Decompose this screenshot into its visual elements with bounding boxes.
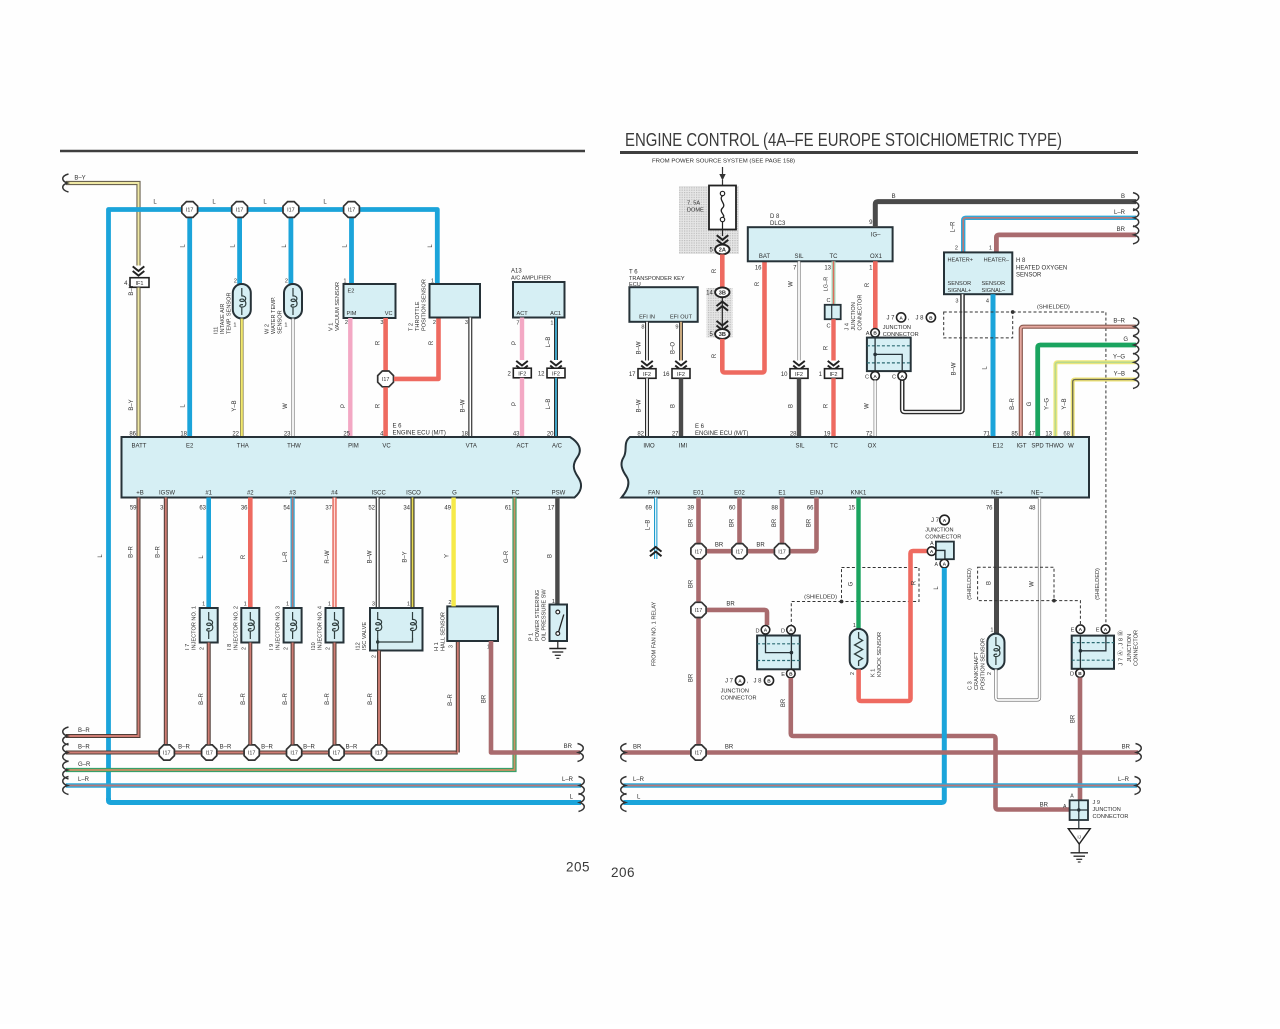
svg-text:2: 2 xyxy=(987,672,993,675)
svg-text:HEATED OXYGEN: HEATED OXYGEN xyxy=(1016,266,1067,272)
svg-text:(SHIELDED): (SHIELDED) xyxy=(967,568,973,600)
svg-text:FC: FC xyxy=(512,491,521,497)
arrows up on FAN wire xyxy=(650,547,662,552)
svg-text:ENGINE ECU (M/T): ENGINE ECU (M/T) xyxy=(393,431,446,437)
svg-text:B: B xyxy=(671,404,677,408)
svg-text:D: D xyxy=(781,628,785,634)
svg-text:INTAKE AIR: INTAKE AIR xyxy=(220,304,226,334)
svg-text:J 8: J 8 xyxy=(754,679,763,685)
svg-text:PIM: PIM xyxy=(347,311,357,317)
svg-text:BR: BR xyxy=(807,518,813,527)
svg-text:+B: +B xyxy=(136,491,144,497)
wire R link I17 to throttle sensor xyxy=(394,318,439,379)
ground symbol below J9 xyxy=(1078,844,1080,853)
svg-text:IF2: IF2 xyxy=(795,372,803,378)
wire L-B FAN from fan relay xyxy=(654,498,657,560)
svg-text:A: A xyxy=(930,541,934,547)
svg-text:E: E xyxy=(1096,628,1100,634)
svg-text:Y: Y xyxy=(445,554,451,558)
svg-text:BR: BR xyxy=(1040,803,1049,809)
svg-text:88: 88 xyxy=(771,506,778,512)
svg-text:BR: BR xyxy=(633,745,642,751)
svg-text:TC: TC xyxy=(830,444,839,450)
svg-text:R: R xyxy=(824,403,830,408)
wire P ACT upper xyxy=(520,318,524,361)
wire R from 2A to 3B xyxy=(720,254,725,287)
svg-text:1: 1 xyxy=(284,323,287,329)
svg-text:A: A xyxy=(1063,804,1067,810)
wire BR E01 long xyxy=(696,498,701,745)
svg-text:J 9: J 9 xyxy=(1093,800,1100,806)
injector I8 INJECTOR NO. 2 xyxy=(248,498,253,609)
svg-text:IJ: IJ xyxy=(1077,835,1081,840)
svg-text:I10: I10 xyxy=(311,642,317,650)
svg-text:2: 2 xyxy=(955,246,958,252)
svg-text:B–W: B–W xyxy=(637,341,643,354)
svg-text:R: R xyxy=(865,282,871,287)
svg-text:2A: 2A xyxy=(719,248,726,254)
wire BR right junction to J9 xyxy=(1078,678,1083,801)
svg-text:1: 1 xyxy=(550,321,553,327)
svg-text:IF2: IF2 xyxy=(518,371,526,377)
wire B-W VTA xyxy=(468,318,472,438)
wire L-R bus (page 206) xyxy=(624,783,1138,788)
wire G KNK1 to knock sensor xyxy=(856,498,860,630)
wire B-R ISC valve to bus xyxy=(377,651,381,745)
svg-text:60: 60 xyxy=(729,506,736,512)
sensor C3 crankshaft position sensor capsule xyxy=(987,634,1004,670)
ECU block E6 (left page) xyxy=(122,437,582,498)
svg-text:BR: BR xyxy=(689,518,695,527)
svg-text:THA: THA xyxy=(237,444,249,450)
svg-text:NE–: NE– xyxy=(1031,491,1043,497)
svg-text:B–R: B–R xyxy=(1113,319,1125,325)
svg-text:1: 1 xyxy=(989,246,992,252)
svg-text:R: R xyxy=(912,580,918,585)
junction I17 row (E01 E02 E1) xyxy=(691,544,706,559)
wire R to ECU TC xyxy=(831,378,835,437)
svg-text:CONNECTOR: CONNECTOR xyxy=(721,695,757,701)
svg-text:3: 3 xyxy=(449,645,455,648)
svg-text:I17: I17 xyxy=(695,751,703,757)
shield dashes knock sensor xyxy=(842,568,920,602)
ISC valve box xyxy=(370,608,423,651)
svg-text:7: 7 xyxy=(516,321,519,327)
svg-text:2: 2 xyxy=(285,279,288,285)
svg-text:2: 2 xyxy=(200,647,206,650)
wire B-O EFI OUT xyxy=(679,322,683,361)
svg-text:BR: BR xyxy=(726,601,735,607)
svg-text:D: D xyxy=(755,628,759,634)
svg-text:B–R: B–R xyxy=(199,692,205,704)
svg-text:L–B: L–B xyxy=(546,399,552,410)
hook Y-G xyxy=(1133,353,1139,371)
svg-text:R: R xyxy=(241,554,247,559)
wire L drop to THW sensor xyxy=(288,210,293,285)
svg-text:I17: I17 xyxy=(186,208,194,214)
wire R DLC3 OX1 to junction connector xyxy=(873,261,878,328)
svg-text:IG–: IG– xyxy=(871,233,881,239)
svg-text:3B: 3B xyxy=(719,332,726,338)
svg-text:10: 10 xyxy=(781,372,788,378)
svg-text:B–Y: B–Y xyxy=(403,551,409,562)
wire L-R to H8 heater+ xyxy=(963,218,1136,253)
wire W DLC3 SIL xyxy=(797,261,800,360)
svg-text:R: R xyxy=(429,340,435,345)
wire BR EINJ xyxy=(790,498,817,552)
ground below P1 xyxy=(557,641,559,649)
svg-text:(SHIELDED): (SHIELDED) xyxy=(1095,568,1101,600)
svg-text:A/C: A/C xyxy=(552,444,563,450)
wire B-Y ISCO xyxy=(411,498,415,609)
svg-text:BR: BR xyxy=(689,673,695,682)
svg-text:BR: BR xyxy=(730,518,736,527)
pin D-B below junction right xyxy=(1076,669,1085,678)
svg-text:66: 66 xyxy=(807,506,814,512)
wire BR hall sensor to hook xyxy=(491,641,580,753)
svg-text:EFI OUT: EFI OUT xyxy=(670,315,693,321)
wire B-W to ECU IMO xyxy=(645,378,649,437)
svg-text:FAN: FAN xyxy=(648,491,660,497)
wire B-R to ECU IGT xyxy=(1021,327,1136,437)
wire L-B AC1 upper xyxy=(554,318,558,361)
link arrows between 3B xyxy=(721,297,723,330)
svg-text:3: 3 xyxy=(380,320,383,326)
svg-text:SIGNAL+: SIGNAL+ xyxy=(948,288,972,294)
wire LG-R DLC3 TC xyxy=(832,261,836,305)
svg-text:I17: I17 xyxy=(236,208,244,214)
svg-text:C: C xyxy=(892,374,896,380)
sensor H8 heated oxygen sensor box xyxy=(944,252,1012,294)
svg-text:E02: E02 xyxy=(734,491,745,497)
connector 3B upper xyxy=(715,287,729,297)
svg-text:J 7: J 7 xyxy=(931,518,940,524)
svg-text:B: B xyxy=(892,194,896,200)
svg-text:Y–G: Y–G xyxy=(1113,354,1125,360)
svg-text:A: A xyxy=(943,562,947,568)
hook L-R right xyxy=(579,777,585,795)
wire Y-B THA xyxy=(240,319,244,438)
svg-text:A: A xyxy=(873,374,877,380)
svg-text:D: D xyxy=(1070,672,1074,678)
arrow into IF2 #17 xyxy=(641,361,653,366)
svg-text:IF2: IF2 xyxy=(677,372,685,378)
svg-text:CRANKSHAFT: CRANKSHAFT xyxy=(974,652,980,690)
hook L-R right 206 xyxy=(1135,777,1141,795)
svg-text:JUNCTION: JUNCTION xyxy=(925,528,953,534)
svg-text:82: 82 xyxy=(637,432,644,438)
wire G to ECU SPD xyxy=(1038,345,1136,437)
svg-text:B–R: B–R xyxy=(448,693,454,705)
svg-text:G: G xyxy=(1123,337,1128,343)
svg-text:2: 2 xyxy=(326,647,332,650)
svg-text:47: 47 xyxy=(1028,432,1035,438)
svg-text:2: 2 xyxy=(448,600,451,606)
svg-text:A: A xyxy=(789,628,793,634)
connector IF2 #16 xyxy=(672,369,690,379)
svg-text:BAT: BAT xyxy=(759,254,771,260)
svg-text:1: 1 xyxy=(853,623,856,629)
svg-text:L–R: L–R xyxy=(562,777,574,783)
svg-text:B–R: B–R xyxy=(261,745,273,751)
transponder T6 key ECU box xyxy=(629,287,697,322)
svg-text:I17: I17 xyxy=(205,751,213,757)
svg-text:E2: E2 xyxy=(348,289,355,295)
svg-text:B–R: B–R xyxy=(346,745,358,751)
svg-text:A: A xyxy=(1104,627,1108,633)
svg-text:A: A xyxy=(930,549,934,555)
svg-text:3B: 3B xyxy=(719,291,726,297)
pin A circle on blue wire xyxy=(940,559,949,568)
svg-text:H 1: H 1 xyxy=(434,642,440,651)
svg-text:IF2: IF2 xyxy=(829,372,837,378)
wire B PSW xyxy=(555,498,559,605)
svg-text:CONNECTOR: CONNECTOR xyxy=(1134,630,1140,666)
svg-text:I 8: I 8 xyxy=(227,644,233,650)
wire L drop to V1 vacuum sensor xyxy=(349,210,354,285)
wire W NE- loop to crankshaft pin 2 xyxy=(996,498,1040,701)
hook B-R +B xyxy=(63,727,69,745)
svg-text:IMI: IMI xyxy=(679,444,688,450)
svg-text:L–R: L–R xyxy=(633,777,645,783)
shield dashes crankshaft xyxy=(978,567,1054,600)
svg-text:B: B xyxy=(873,331,877,337)
svg-text:BR: BR xyxy=(564,744,573,750)
svg-text:INJECTOR NO. 4: INJECTOR NO. 4 xyxy=(318,606,324,650)
svg-text:A: A xyxy=(738,678,742,684)
svg-text:G–R: G–R xyxy=(78,762,91,768)
svg-text:W: W xyxy=(789,281,795,287)
injector I7 INJECTOR NO. 1 xyxy=(206,498,211,609)
svg-text:86: 86 xyxy=(129,432,136,438)
svg-text:R: R xyxy=(824,345,830,350)
svg-text:B–Y: B–Y xyxy=(129,399,135,410)
svg-text:B–R: B–R xyxy=(368,692,374,704)
hook L-R left xyxy=(63,777,69,795)
svg-text:EINJ: EINJ xyxy=(810,491,823,497)
svg-text:J 7 Ⓐ , J 8 Ⓑ: J 7 Ⓐ , J 8 Ⓑ xyxy=(1117,630,1125,665)
svg-text:I17: I17 xyxy=(248,751,256,757)
svg-text:I 7: I 7 xyxy=(185,644,191,650)
svg-text:3: 3 xyxy=(465,320,468,326)
svg-text:Y–B: Y–B xyxy=(1062,398,1068,409)
hook G xyxy=(1133,336,1139,354)
svg-text:W: W xyxy=(1068,444,1074,450)
svg-text:H 8: H 8 xyxy=(1016,258,1026,264)
wire B-R ground bus (page 205) xyxy=(66,751,458,755)
svg-text:23: 23 xyxy=(284,432,291,438)
svg-text:E: E xyxy=(781,672,785,678)
svg-text:E: E xyxy=(1071,628,1075,634)
wire P PIM xyxy=(348,318,352,437)
svg-text:14: 14 xyxy=(706,291,713,297)
sensor I11 intake air temp capsule xyxy=(233,284,251,319)
feed arrow into fuse xyxy=(722,167,724,179)
pin E-B below junction xyxy=(787,669,796,678)
svg-text:ENGINE ECU (M/T): ENGINE ECU (M/T) xyxy=(695,431,748,437)
pin A circle on red wire xyxy=(927,547,936,556)
injector I9 INJECTOR NO. 3 xyxy=(291,498,295,609)
sensor K1 knock sensor capsule xyxy=(850,629,868,670)
svg-text:IF2: IF2 xyxy=(552,371,560,377)
svg-text:C: C xyxy=(826,298,830,304)
svg-text:E1: E1 xyxy=(778,491,786,497)
hook L-R left 206 xyxy=(621,777,627,795)
svg-text:R: R xyxy=(712,353,718,358)
wire Y-G to ECU THWO xyxy=(1055,362,1136,437)
svg-text:Y–G: Y–G xyxy=(1045,398,1051,410)
wire B-Y to ECU BATT xyxy=(136,288,140,438)
junction I17 on E01 lower xyxy=(691,602,706,617)
svg-text:CONNECTOR: CONNECTOR xyxy=(883,332,919,338)
sensor V1 vacuum sensor box xyxy=(344,284,396,318)
svg-text:B–R: B–R xyxy=(241,692,247,704)
svg-text:54: 54 xyxy=(283,506,290,512)
connector IF2 #17 xyxy=(638,369,656,379)
svg-text:2: 2 xyxy=(345,320,348,326)
fuse 7.5A DOME xyxy=(679,186,739,254)
svg-text:E 6: E 6 xyxy=(695,424,705,430)
wire L main bus (page 205) xyxy=(109,210,438,801)
connector IF2 #2 xyxy=(513,368,531,378)
svg-text:34: 34 xyxy=(403,506,410,512)
svg-text:VACUUM SENSOR: VACUUM SENSOR xyxy=(335,282,341,331)
hook L-R xyxy=(1133,209,1139,227)
svg-text:63: 63 xyxy=(199,506,206,512)
svg-text:KNOCK SENSOR: KNOCK SENSOR xyxy=(877,632,883,677)
sensor W2 water temp capsule xyxy=(284,284,302,319)
junction I17 on BR bus 206 xyxy=(691,745,706,760)
svg-text:P 1: P 1 xyxy=(529,633,535,641)
svg-text:K 1: K 1 xyxy=(871,669,877,677)
svg-text:(SHIELDED): (SHIELDED) xyxy=(1037,305,1070,311)
svg-text:E12: E12 xyxy=(993,444,1004,450)
hook B-R bus xyxy=(63,744,69,762)
svg-text:BR: BR xyxy=(772,518,778,527)
wire W THW xyxy=(291,319,294,438)
wire B NE+ to crankshaft sensor xyxy=(994,498,999,634)
wire G-R FC xyxy=(66,498,515,771)
svg-text:B–R: B–R xyxy=(303,745,315,751)
wire R knock sensor loop to J7 xyxy=(859,551,928,701)
svg-text:16: 16 xyxy=(755,266,762,272)
svg-text:C: C xyxy=(865,374,869,380)
svg-text:2: 2 xyxy=(284,647,290,650)
svg-text:52: 52 xyxy=(368,506,375,512)
wire B-R IGSW xyxy=(164,498,168,749)
svg-text:B: B xyxy=(789,672,793,678)
wire L knock junction to left page xyxy=(624,568,945,803)
pins E-A of junction connector (right) xyxy=(1076,625,1085,634)
shield dashes around H8 signal wire xyxy=(944,312,1013,338)
svg-text:B–W: B–W xyxy=(637,399,643,412)
svg-text:19: 19 xyxy=(824,432,831,438)
svg-text:IGT: IGT xyxy=(1017,444,1027,450)
svg-text:L–B: L–B xyxy=(546,337,552,348)
connector IF2 #10 xyxy=(790,369,808,379)
svg-text:L–R: L–R xyxy=(951,221,957,233)
svg-text:THROTTLE: THROTTLE xyxy=(415,301,421,331)
arrow into IF2 (ACT) xyxy=(516,361,528,366)
svg-text:ECU: ECU xyxy=(629,282,641,288)
svg-text:20: 20 xyxy=(547,432,554,438)
svg-text:IMO: IMO xyxy=(643,444,655,450)
svg-text:I12: I12 xyxy=(356,642,362,650)
connector 2A xyxy=(715,245,729,255)
svg-text:CONNECTOR: CONNECTOR xyxy=(925,534,961,540)
svg-text:JUNCTION: JUNCTION xyxy=(1127,634,1133,662)
svg-text:13: 13 xyxy=(1045,432,1052,438)
relay A13 A/C amplifier box xyxy=(513,282,565,318)
junction connector J7/J8 box (page 206 left) xyxy=(757,636,800,670)
svg-text:A: A xyxy=(1079,627,1083,633)
svg-text:68: 68 xyxy=(1063,432,1070,438)
svg-text:B: B xyxy=(767,678,771,684)
wire B-R below I9 xyxy=(291,643,295,745)
svg-text:I17: I17 xyxy=(287,208,295,214)
svg-text:1: 1 xyxy=(407,602,410,608)
svg-text:1: 1 xyxy=(990,628,993,634)
svg-text:E 6: E 6 xyxy=(393,424,403,430)
wire W junction to ECU OX xyxy=(874,380,877,437)
wire BR bus (page 206) xyxy=(624,750,1139,755)
svg-text:SIL: SIL xyxy=(794,254,804,260)
svg-text:B: B xyxy=(789,404,795,408)
svg-text:THWO: THWO xyxy=(1045,444,1064,450)
arrow into IF2 #16 xyxy=(675,361,687,366)
wire BR E02 xyxy=(737,498,742,545)
svg-text:I17: I17 xyxy=(163,751,171,757)
svg-text:8: 8 xyxy=(641,325,644,331)
svg-text:2: 2 xyxy=(850,672,856,675)
junction connector J7/J8 box (page 206 right) xyxy=(1072,636,1114,669)
sensor T2 throttle position sensor box xyxy=(430,284,481,318)
shield dash line to J7/J8 E pin xyxy=(1013,312,1106,625)
svg-text:VC: VC xyxy=(382,444,391,450)
svg-text:15: 15 xyxy=(848,506,855,512)
svg-text:A: A xyxy=(866,331,870,337)
svg-text:9: 9 xyxy=(675,325,678,331)
wire R TC to IF2 xyxy=(831,319,835,360)
wire B-W ISCC xyxy=(376,498,380,609)
sensor H1 hall sensor box xyxy=(447,606,498,641)
svg-text:A: A xyxy=(935,562,939,568)
wire R VC upper xyxy=(383,318,388,371)
hook BR xyxy=(1133,226,1139,244)
svg-text:ISCO: ISCO xyxy=(406,491,421,497)
svg-text:W: W xyxy=(865,403,871,409)
svg-text:E01: E01 xyxy=(693,491,704,497)
svg-text:ACT: ACT xyxy=(517,444,529,450)
wire B-R below I8 xyxy=(248,643,252,745)
svg-text:I11: I11 xyxy=(214,327,220,334)
svg-text:A: A xyxy=(900,374,904,380)
svg-text:BR: BR xyxy=(756,543,765,549)
svg-text:B: B xyxy=(1078,671,1082,677)
svg-text:B: B xyxy=(929,315,933,321)
svg-text:B–R: B–R xyxy=(78,745,90,751)
hook BR left (page 206) xyxy=(621,744,627,762)
wire L-B AC1 to ECU xyxy=(554,378,558,437)
svg-text:I 9: I 9 xyxy=(269,644,275,650)
svg-text:B–R: B–R xyxy=(156,545,162,557)
title underline xyxy=(620,151,1138,154)
wire P ACT to ECU xyxy=(520,378,524,437)
svg-text:13: 13 xyxy=(824,266,831,272)
hook B-Y feed xyxy=(63,174,69,192)
svg-text:J 8: J 8 xyxy=(916,316,925,322)
svg-text:KNK1: KNK1 xyxy=(851,491,867,497)
